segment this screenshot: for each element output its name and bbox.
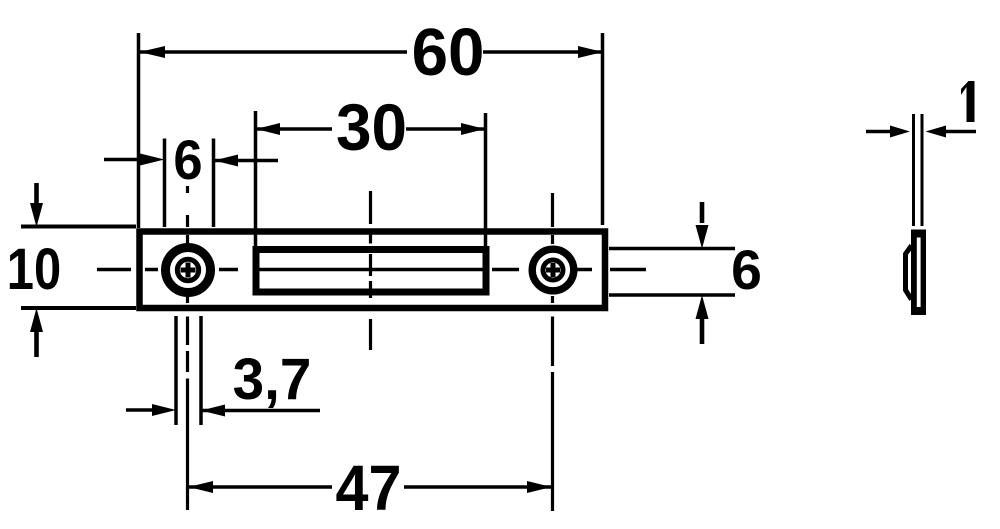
dimension 47 right arrowhead — [527, 481, 552, 493]
svg-text:6: 6 — [173, 130, 202, 192]
dimension 1 text — [961, 81, 975, 122]
dimension 30 right arrowhead — [461, 123, 485, 135]
svg-text:3,7: 3,7 — [233, 347, 312, 412]
svg-text:47: 47 — [336, 453, 402, 525]
dimension 60 right extension line — [601, 33, 605, 225]
right screw vertical center line — [551, 193, 554, 511]
dimension 6 hole: left arrow — [104, 158, 144, 162]
dimension 10: bottom extension line — [21, 306, 136, 310]
svg-text:10: 10 — [7, 237, 61, 302]
slot outline — [256, 250, 486, 293]
dimension 6 slot: bottom extension line — [609, 293, 735, 296]
dimension 1: left arrow — [866, 130, 892, 134]
screw hole left inner circle — [177, 259, 198, 280]
dimension 60 right arrowhead — [578, 46, 603, 58]
svg-text:30: 30 — [336, 90, 407, 164]
plate outline (front view) — [140, 232, 606, 309]
dimension 10: top extension line — [21, 225, 136, 229]
dimension 6 slot: bottom arrow — [700, 319, 705, 344]
dimension 60 text — [412, 15, 485, 90]
dimension 47 text — [336, 453, 402, 525]
dimension 1: right face extension line — [921, 114, 924, 226]
dimension 30 text — [336, 90, 407, 164]
dimension 47 line — [189, 485, 552, 489]
dimension 6 slot text — [731, 239, 762, 301]
dimension 6 hole: right arrow — [214, 159, 278, 163]
dimension 30 line — [256, 127, 485, 131]
side view plate bar — [911, 230, 926, 316]
dimension 60 left arrowhead — [140, 46, 166, 58]
dimension 3,7: left arrow — [126, 408, 152, 412]
dimension 3,7 text — [233, 347, 312, 412]
dimension 60 line — [140, 50, 604, 54]
dimension 60 left extension line — [137, 33, 141, 228]
dimension 47 left arrowhead — [189, 481, 214, 493]
dimension 1: left face extension line — [912, 114, 915, 226]
dimension 30 left extension line — [254, 111, 258, 247]
dimension 3,7: right arrow — [201, 409, 320, 413]
screw hole left outer circle — [166, 248, 211, 293]
dimension 3,7: right extension line — [199, 316, 203, 425]
dimension 10: top arrow — [34, 183, 39, 203]
dimension 10: bottom arrow — [34, 332, 39, 357]
vertical center line mid plate — [369, 191, 372, 350]
side view lance bump — [906, 246, 912, 300]
dimension 30 left arrowhead — [256, 123, 280, 135]
svg-text:6: 6 — [731, 239, 762, 301]
dimension 1: right arrow — [944, 130, 976, 134]
dimension 6 hole: left extension line — [163, 139, 167, 228]
dimension 6 slot: top arrow — [700, 202, 705, 223]
dimension 6 hole text — [173, 130, 202, 192]
screw hole right center cross — [546, 263, 560, 277]
dimension 10 text — [7, 237, 61, 302]
screw hole right inner circle — [543, 260, 563, 280]
horizontal center line — [97, 268, 646, 271]
dimension 6 slot: top extension line — [609, 247, 735, 250]
left screw vertical center line — [186, 186, 189, 510]
dimension 30 right extension line — [484, 113, 488, 247]
screw hole left center cross — [181, 263, 196, 278]
dimension 3,7: left extension line — [174, 316, 178, 425]
dimension 6 hole: right extension line — [212, 139, 216, 228]
svg-text:60: 60 — [412, 15, 485, 90]
screw hole right outer circle — [532, 249, 574, 291]
